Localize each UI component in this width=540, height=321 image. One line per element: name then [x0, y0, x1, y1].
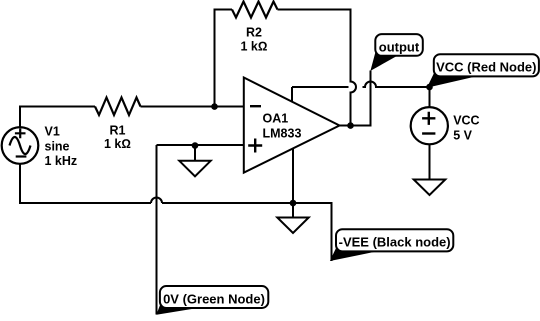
- wire op-amp output to output node: [338, 125, 351, 127]
- VCC plus marker: [422, 112, 435, 125]
- wire VCC source bottom lead to ground: [429, 144, 431, 179]
- V1 minus marker: [16, 155, 27, 157]
- voltage source V1 body: [2, 127, 39, 164]
- VCC red node flag box: [434, 54, 539, 76]
- wire VCC rail right segment with hop over output riser: [363, 82, 430, 88]
- ground below VCC source: [414, 180, 446, 196]
- svg-text:R1: R1: [110, 123, 126, 137]
- wire R2 right down to output node with hop over VCC rail: [278, 10, 357, 126]
- 0V green node flag box: [160, 286, 268, 308]
- op-amp OA1 body: [244, 78, 340, 173]
- junction dot at V- node: [290, 200, 297, 207]
- node A junction dot: [211, 103, 218, 110]
- svg-text:VCC (Red Node): VCC (Red Node): [436, 60, 536, 75]
- svg-text:V1: V1: [45, 125, 60, 139]
- output node junction dot: [347, 122, 354, 129]
- V1 sine symbol: [10, 137, 31, 154]
- output flag box: [375, 34, 423, 56]
- 0V green node flag pointer: [156, 304, 199, 315]
- wire node A up to R2 left: [215, 10, 233, 107]
- svg-text:1 kΩ: 1 kΩ: [104, 137, 131, 151]
- -VEE black node flag box: [336, 229, 453, 251]
- svg-text:-VEE (Black node): -VEE (Black node): [339, 235, 451, 250]
- svg-text:sine: sine: [45, 139, 70, 153]
- resistor R1: [95, 98, 141, 116]
- svg-text:1 kHz: 1 kHz: [45, 154, 78, 168]
- wire V1 top lead to R1 left: [20, 107, 95, 128]
- wire bottom rail hop over 0V riser: [151, 198, 162, 204]
- output flag pointer: [370, 51, 397, 71]
- wire V1 bottom lead to bottom rail: [20, 164, 151, 203]
- op-amp inverting input marker: [250, 105, 261, 107]
- svg-text:LM833: LM833: [263, 127, 302, 141]
- ground at op-amp V- node: [292, 203, 294, 218]
- wire VCC rail left segment from op-amp V+ pin: [292, 86, 349, 88]
- VCC node junction dot: [426, 84, 433, 91]
- resistor R2: [232, 2, 278, 18]
- svg-text:OA1: OA1: [263, 111, 289, 125]
- wire op-amp V+ power pin: [291, 87, 293, 102]
- svg-text:VCC: VCC: [453, 113, 479, 127]
- svg-text:5 V: 5 V: [453, 128, 472, 142]
- wire R1 to op-amp inverting input: [141, 106, 244, 108]
- V1 plus marker: [15, 128, 26, 138]
- junction dot at ground of non-inverting input: [192, 142, 199, 149]
- VCC red node flag pointer: [427, 74, 477, 88]
- svg-text:output: output: [379, 39, 420, 54]
- svg-text:1 kΩ: 1 kΩ: [241, 39, 268, 53]
- wire op-amp V- power pin down to bottom rail: [292, 148, 294, 202]
- wire 0V riser down to green node flag: [156, 145, 158, 315]
- op-amp non-inverting input marker: [248, 139, 262, 153]
- wire op-amp non-inverting input: [157, 144, 244, 146]
- VCC minus marker: [422, 132, 435, 134]
- ground at non-inverting input: [194, 146, 196, 161]
- wire output node to output flag riser: [351, 71, 371, 126]
- wire bottom rail to -VEE flag drop: [162, 203, 332, 261]
- svg-text:R2: R2: [246, 26, 262, 40]
- svg-text:0V (Green Node): 0V (Green Node): [163, 291, 265, 306]
- -VEE black node flag pointer: [330, 247, 378, 261]
- voltage source VCC body: [411, 107, 448, 144]
- wire VCC source top lead: [429, 87, 431, 107]
